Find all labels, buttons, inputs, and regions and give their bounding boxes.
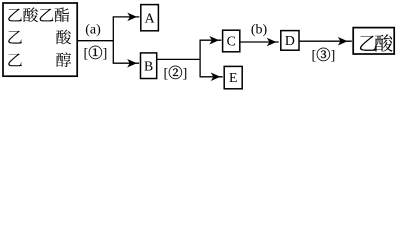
arrow to B [113, 60, 139, 67]
box reactants (ethyl acetate / acetic acid / ethanol) [3, 3, 77, 76]
text 乙 (product) [360, 36, 376, 51]
box B [141, 53, 157, 79]
arrow C to D [240, 38, 279, 45]
text 酸 (line1) [23, 7, 38, 22]
text 乙 (line2) [8, 31, 22, 44]
svg-text:D: D [285, 33, 295, 48]
wire shaft from reactants box [78, 40, 114, 42]
text 醇 (line3) [56, 52, 71, 67]
text 酸 (product) [375, 34, 393, 52]
box product acetic acid [353, 28, 394, 54]
label [①] [84, 46, 108, 62]
svg-text:C: C [227, 34, 236, 49]
svg-text:[: [ [312, 49, 317, 64]
svg-text:(a): (a) [85, 23, 101, 38]
wire branch vertical 2 [199, 40, 201, 77]
text 乙 (line3) [8, 53, 22, 66]
box D [281, 31, 299, 51]
svg-text:B: B [144, 59, 153, 74]
svg-text:(b): (b) [251, 23, 268, 38]
box A [141, 5, 159, 31]
svg-text:]: ] [331, 49, 336, 64]
text 乙 (line1) [8, 8, 22, 21]
arrow to E [200, 73, 223, 80]
svg-text:A: A [145, 10, 155, 25]
text 乙 (line1b) [40, 8, 54, 21]
circled 1 [89, 46, 102, 59]
arrow to C [200, 37, 222, 44]
label [②] [164, 66, 188, 82]
svg-text:[: [ [84, 47, 89, 62]
wire from B to branch 2 [157, 58, 200, 60]
svg-text:]: ] [103, 47, 108, 62]
text 酸 (line2) [56, 30, 71, 45]
circled 2 [169, 66, 182, 79]
svg-text:]: ] [183, 67, 188, 82]
wire branch vertical 1 [112, 17, 114, 63]
box C [223, 30, 240, 52]
circled 3 [317, 48, 330, 61]
arrow D to acetic acid [299, 38, 352, 45]
svg-text:[: [ [164, 67, 169, 82]
arrow to A [113, 13, 140, 20]
label [③] [312, 48, 336, 64]
box E [224, 66, 242, 88]
svg-text:E: E [229, 70, 237, 85]
text 酯 (line1) [55, 8, 70, 23]
